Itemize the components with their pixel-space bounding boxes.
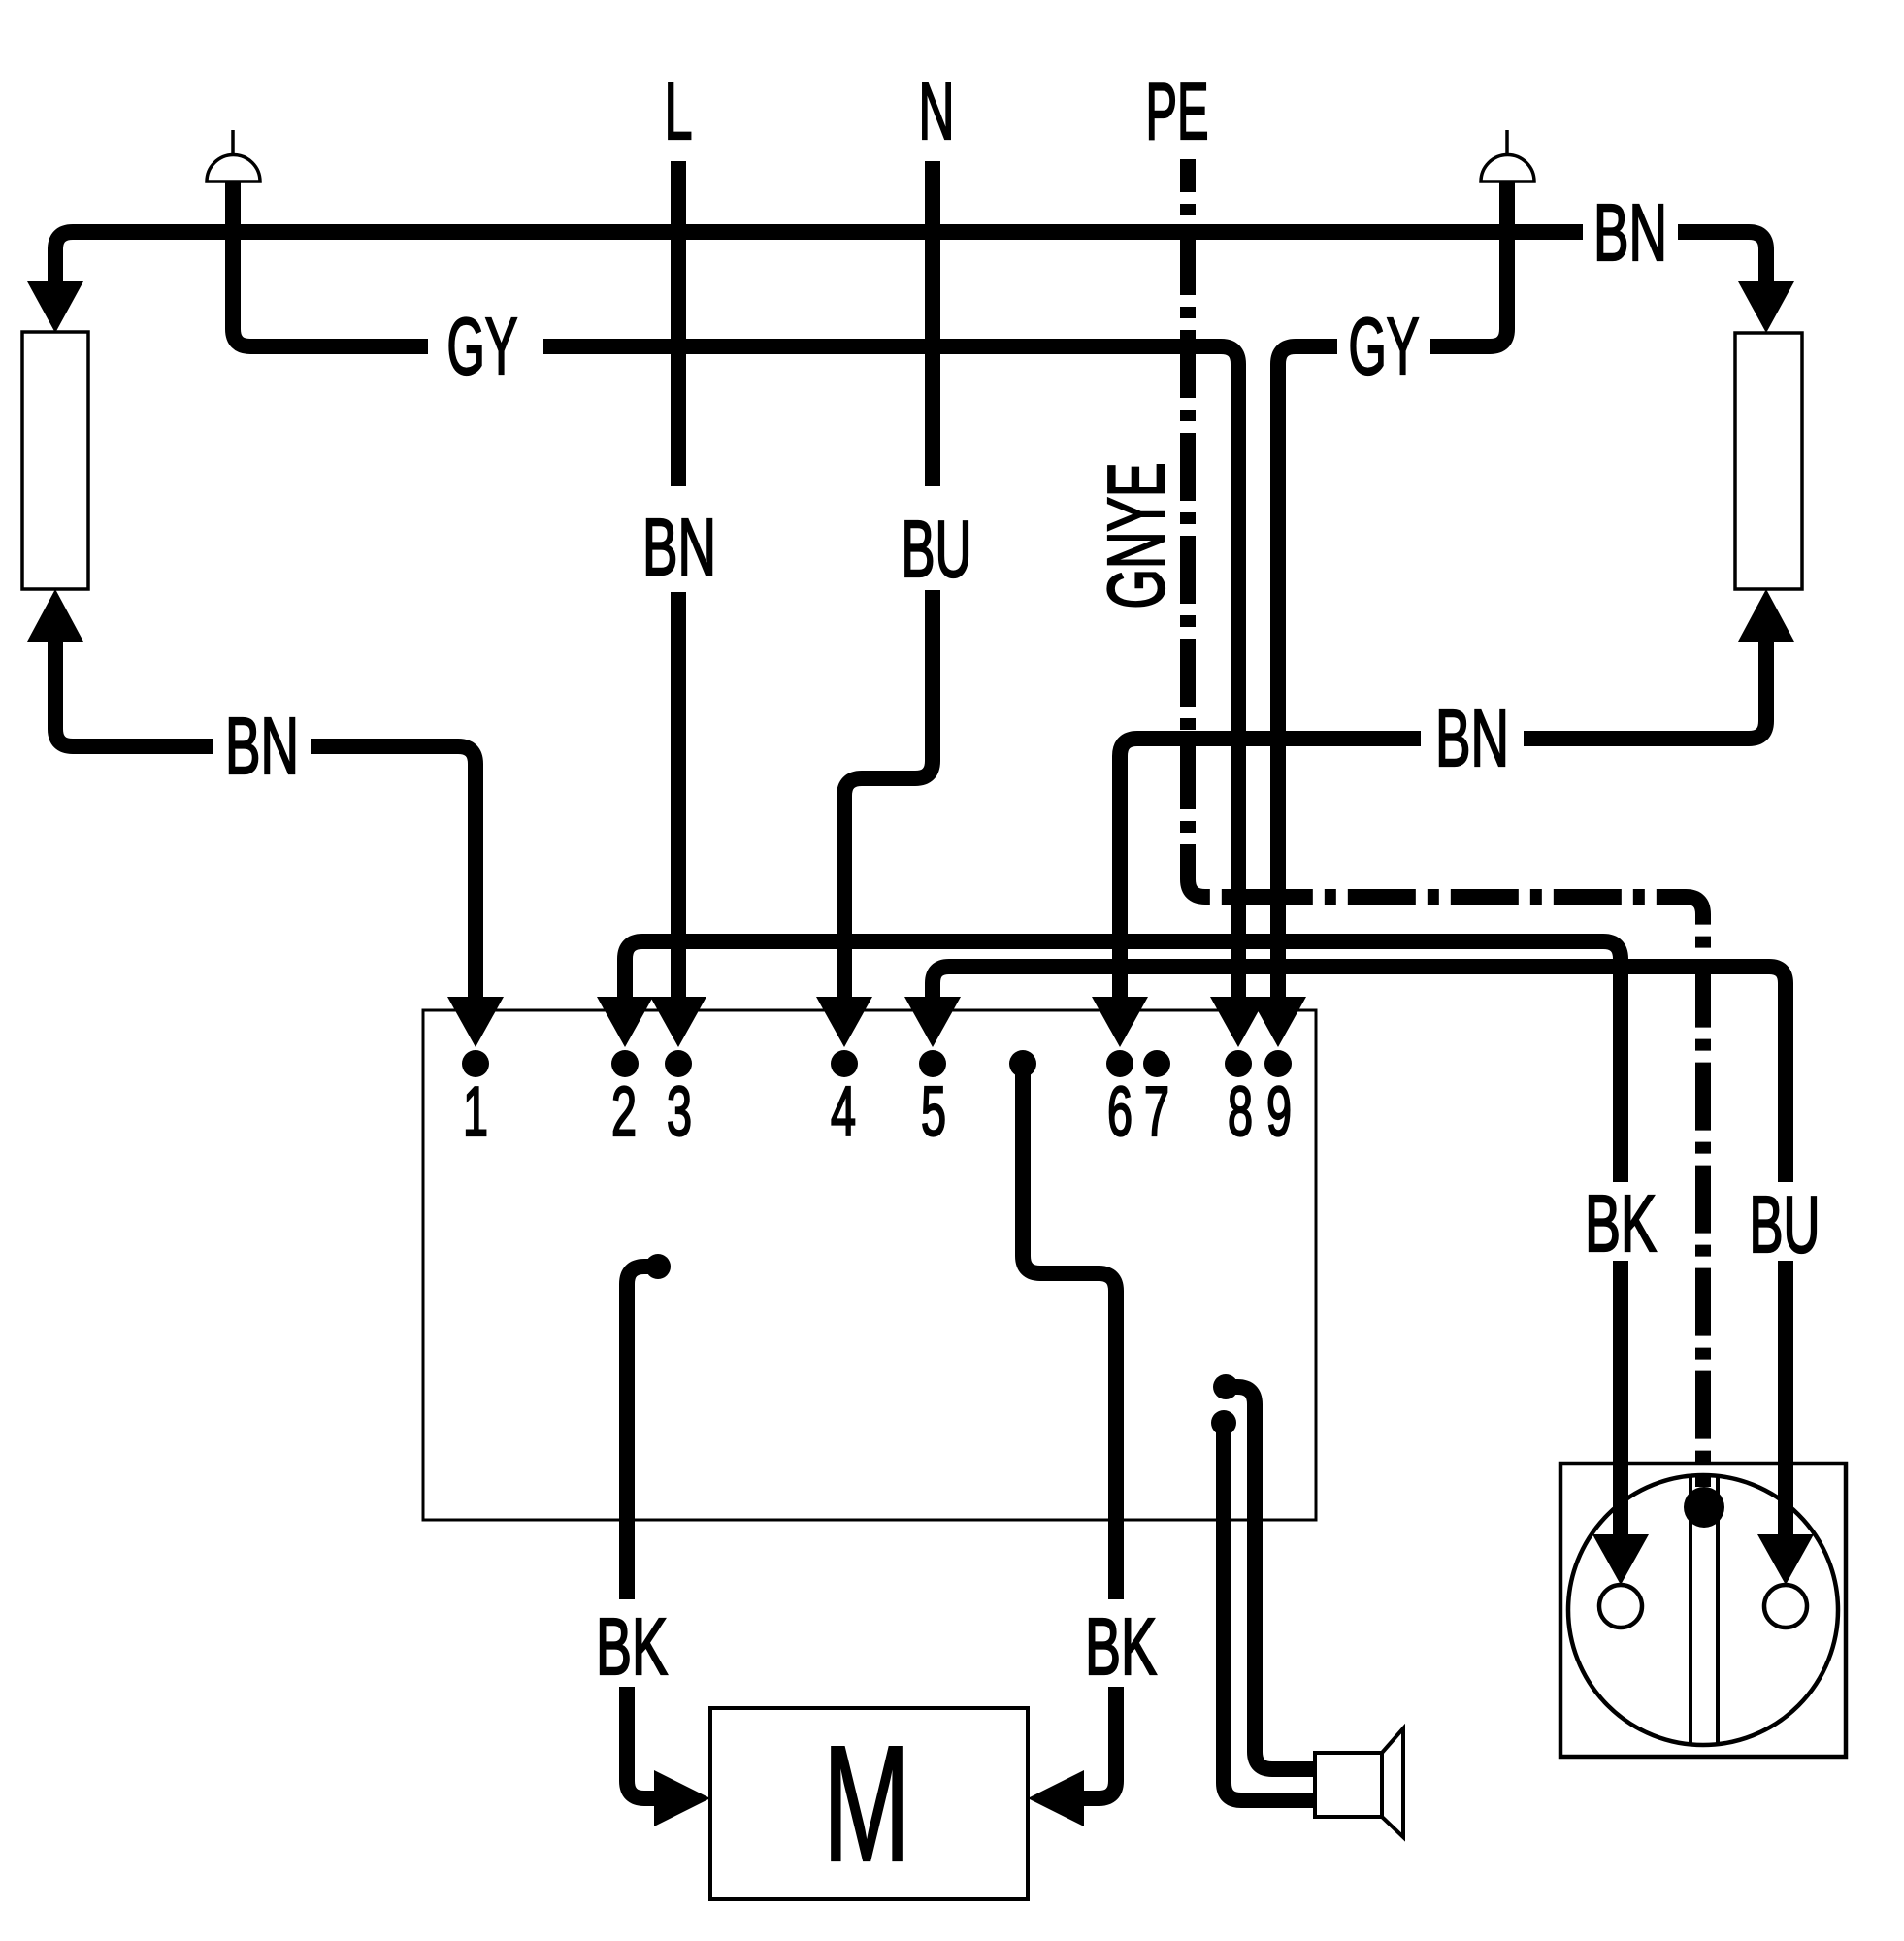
socket PE dot <box>1684 1487 1724 1528</box>
svg-text:BU: BU <box>902 504 972 594</box>
wire: top BN bus <box>55 232 1583 283</box>
wire: internal terminal-row dot to motor BK right <box>1023 1064 1116 1599</box>
terminal dot 4 <box>831 1050 858 1077</box>
svg-text:GNYE: GNYE <box>1091 463 1181 609</box>
wire: top BN bus right part <box>1678 232 1766 283</box>
svg-text:BK: BK <box>596 1601 668 1692</box>
wire: terminal 2 line to socket BK pin <box>625 941 1621 1182</box>
terminal dot 9 <box>1264 1050 1292 1077</box>
arrow terminal 1 <box>447 997 504 1047</box>
terminal dot 5 <box>919 1050 946 1077</box>
wire: internal dot to motor BK left <box>627 1267 658 1599</box>
arrow into F2 bottom <box>1738 589 1794 642</box>
fuse F1 left <box>22 332 88 589</box>
arrow terminal 6 <box>1092 997 1148 1047</box>
terminal dot 7 <box>1143 1050 1170 1077</box>
arrow into F2 top <box>1738 281 1794 333</box>
arrow terminal 2 <box>597 997 653 1047</box>
socket X1 circle <box>1568 1475 1838 1745</box>
arrow into F1 top <box>27 281 83 333</box>
wire: L conductor upper <box>671 161 686 486</box>
svg-text:9: 9 <box>1266 1073 1292 1151</box>
wire: PE dash-dot run to socket <box>1188 159 1703 1487</box>
wire: N conductor upper <box>925 161 940 486</box>
wire: terminal 5 line to socket BU pin <box>933 967 1786 1182</box>
terminal dot 2 <box>611 1050 639 1077</box>
socket earth strip <box>1691 1476 1718 1744</box>
terminal dot internal <box>1009 1050 1036 1077</box>
svg-text:3: 3 <box>667 1073 692 1151</box>
socket X1 square <box>1560 1464 1846 1757</box>
antenna symbol left <box>207 130 260 181</box>
svg-text:BU: BU <box>1750 1179 1821 1269</box>
svg-text:M: M <box>823 1712 910 1896</box>
wire: right antenna drop to GY <box>1430 175 1507 346</box>
arrow into motor left <box>654 1770 710 1826</box>
arrow terminal 3 <box>650 997 706 1047</box>
fuse F2 right <box>1735 333 1802 589</box>
svg-text:BK: BK <box>1585 1178 1657 1268</box>
arrow terminal 8 <box>1210 997 1266 1047</box>
terminal dot 1 <box>462 1050 489 1077</box>
internal dot left <box>645 1254 671 1279</box>
svg-text:BN: BN <box>225 701 299 791</box>
wire: internal upper dot to speaker <box>1226 1387 1315 1769</box>
svg-text:BN: BN <box>1593 187 1667 278</box>
antenna symbol right <box>1481 130 1534 181</box>
wire: GY line to terminal 8 <box>543 346 1238 999</box>
svg-text:6: 6 <box>1107 1073 1133 1151</box>
wire: L conductor lower to terminal 3 <box>671 592 686 999</box>
socket pin L <box>1599 1585 1642 1628</box>
svg-text:5: 5 <box>921 1073 946 1151</box>
wire: BN right from terminal 6 to fuse <box>1120 739 1421 999</box>
arrow into socket pin N <box>1757 1534 1814 1585</box>
internal dot lower right <box>1211 1410 1236 1435</box>
control unit box A1 <box>423 1010 1316 1520</box>
motor M1 box <box>710 1708 1028 1899</box>
arrow terminal 5 <box>904 997 961 1047</box>
wire: internal lower dot to speaker <box>1224 1423 1315 1800</box>
svg-text:4: 4 <box>831 1073 856 1151</box>
svg-text:BK: BK <box>1085 1601 1157 1692</box>
wire: BN left from fuse to terminal 1 <box>55 642 213 746</box>
arrow into motor right <box>1028 1770 1084 1826</box>
svg-text:BN: BN <box>642 502 716 592</box>
svg-text:1: 1 <box>463 1073 488 1151</box>
wire: N conductor lower jog to terminal 4 <box>844 590 933 999</box>
svg-text:2: 2 <box>611 1073 637 1151</box>
svg-text:L: L <box>665 66 693 156</box>
terminal dot 3 <box>665 1050 692 1077</box>
internal dot upper right <box>1213 1374 1238 1399</box>
terminal dot 8 <box>1225 1050 1252 1077</box>
svg-text:8: 8 <box>1228 1073 1253 1151</box>
svg-text:BN: BN <box>1435 693 1509 783</box>
terminal dot 6 <box>1106 1050 1133 1077</box>
wire: left antenna drop to GY <box>233 175 428 346</box>
wire: GY right segment to terminal 9 <box>1278 346 1337 999</box>
arrow terminal 4 <box>816 997 872 1047</box>
svg-text:PE: PE <box>1146 66 1209 156</box>
arrow terminal 9 <box>1250 997 1306 1047</box>
arrow into F1 bottom <box>27 589 83 642</box>
svg-text:N: N <box>919 66 955 156</box>
arrow into socket pin L <box>1592 1534 1649 1585</box>
svg-text:7: 7 <box>1144 1073 1169 1151</box>
svg-text:GY: GY <box>447 301 518 391</box>
speaker H1 <box>1315 1728 1403 1837</box>
socket pin N <box>1764 1585 1807 1628</box>
svg-text:GY: GY <box>1349 301 1420 391</box>
